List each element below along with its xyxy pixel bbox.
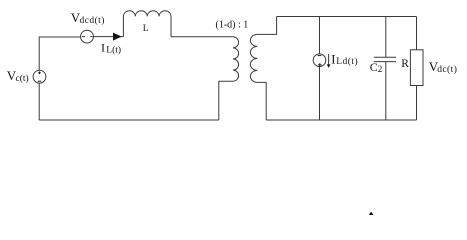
label Vc(t) [7,68,29,84]
voltage source Vdcd(t) U1 [81,30,94,43]
resistor R [410,50,423,86]
wire current source branch lower [319,67,321,121]
wire bottom rail left [39,119,219,121]
svg-text:(1-d) : 1: (1-d) : 1 [216,19,249,30]
arrow ILd current direction [327,54,331,68]
svg-text:dcd(t): dcd(t) [80,15,105,26]
wire left vertical upper [39,37,80,70]
wire bottom rail right [266,119,416,121]
voltage source Vc(t) [33,70,46,83]
wire inductor to transformer primary [171,36,233,38]
label ILd(t) [331,52,358,67]
wire current source branch upper [319,17,321,54]
transformer secondary winding [250,34,257,82]
wire secondary bottom connector [257,82,266,120]
label Vdcd(t) [71,10,105,26]
transformer primary winding [233,37,239,81]
bottom edge mark [369,212,374,215]
wire right vertical upper [416,17,418,50]
svg-text:I: I [101,40,105,54]
wire top rail right [277,16,417,18]
label Vdc(t) [429,59,458,75]
inductor L [123,11,171,37]
wire left vertical lower [38,83,40,120]
label C2 [370,60,383,74]
wire right vertical lower [416,86,418,121]
svg-text:c(t): c(t) [16,73,29,84]
svg-text:dc(t): dc(t) [437,64,457,75]
svg-text:R: R [401,58,409,70]
arrow IL(t) current direction [113,33,122,41]
current source ILd(t) [313,54,326,67]
svg-text:L(t): L(t) [106,44,121,55]
wire capacitor branch lower [385,62,387,120]
label IL(t) [101,40,121,55]
wire capacitor branch upper [385,17,387,58]
wire from Vdcd to inductor [93,36,123,38]
svg-text:I: I [331,52,335,66]
capacitor C2 [374,57,396,61]
svg-text:L: L [143,24,149,34]
wire primary bottom connector [219,81,233,120]
svg-text:Ld(t): Ld(t) [336,56,358,67]
wire secondary top connector [257,17,276,35]
svg-text:C: C [370,60,378,74]
svg-text:2: 2 [378,64,383,74]
